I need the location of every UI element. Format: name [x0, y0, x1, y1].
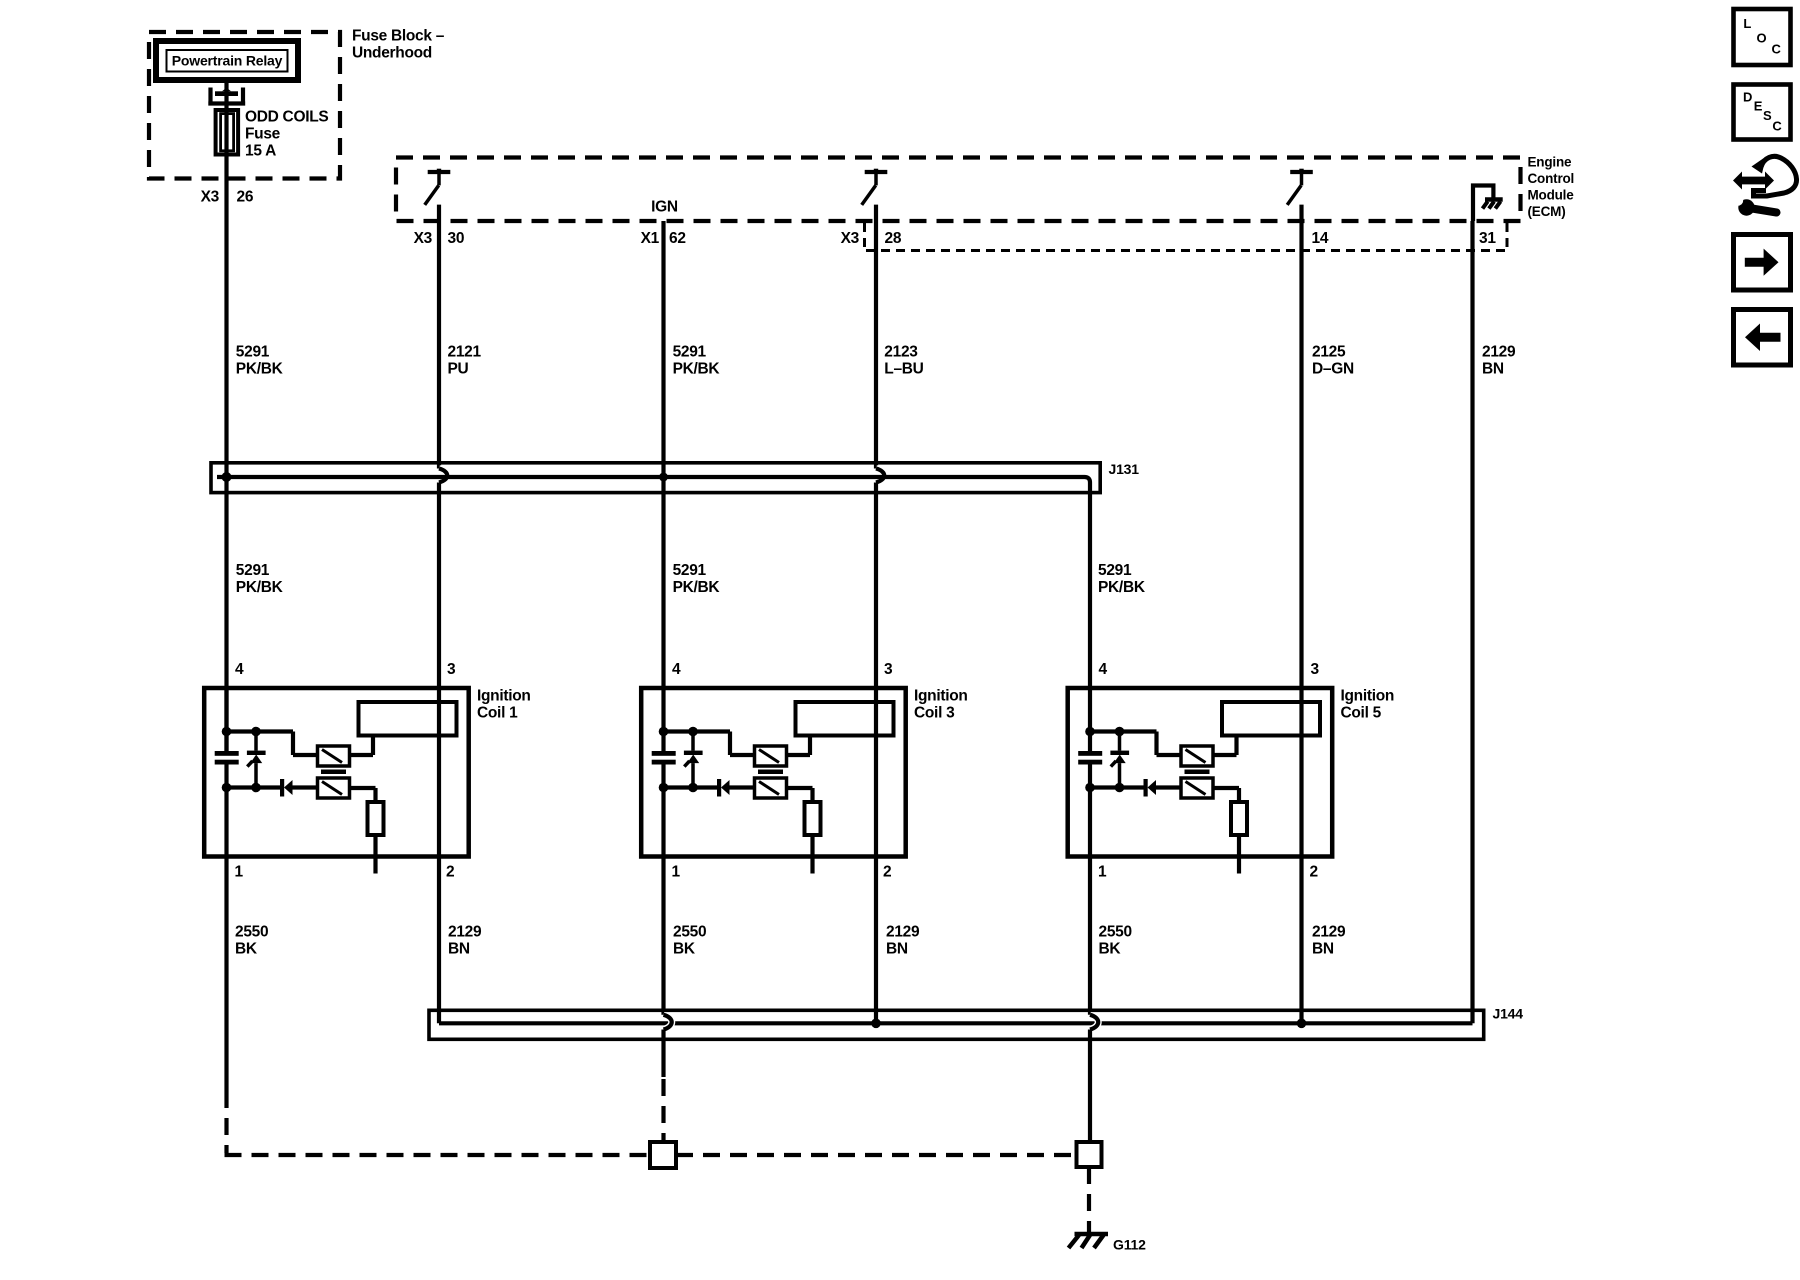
svg-text:E: E	[1754, 99, 1763, 114]
svg-text:Coil 5: Coil 5	[1341, 704, 1382, 721]
splice pack J144 outline	[429, 1010, 1484, 1039]
svg-text:PK/BK: PK/BK	[1098, 579, 1146, 596]
junction dot wire 2129 coil3 at J144	[871, 1019, 881, 1029]
svg-text:Powertrain Relay: Powertrain Relay	[172, 53, 283, 69]
ignition coil 1 module	[204, 661, 469, 881]
ECM internal ground (pin 31)	[1473, 186, 1493, 222]
swap-and-adjust tool icon	[1733, 156, 1797, 215]
wire 2550 BK coil1 pin1 ground run	[224, 857, 228, 1091]
back arrow nav icon	[1734, 310, 1791, 366]
svg-text:S: S	[1763, 108, 1772, 123]
wire 2550 BK coil5 pin1 ground run with hop over J144	[1088, 857, 1092, 1015]
svg-text:Fuse: Fuse	[245, 126, 281, 143]
svg-text:BK: BK	[1099, 940, 1122, 957]
svg-text:C: C	[1772, 118, 1782, 133]
ECM driver Q1 (pin X3-30)	[425, 169, 451, 205]
svg-text:31: 31	[1479, 230, 1496, 247]
junction dot IGN wire at J131	[659, 473, 668, 482]
svg-text:5291: 5291	[673, 343, 707, 360]
svg-text:2121: 2121	[448, 343, 482, 360]
svg-text:J144: J144	[1493, 1006, 1524, 1022]
svg-text:C: C	[1772, 42, 1782, 57]
svg-text:X3: X3	[841, 230, 860, 247]
svg-text:BN: BN	[1482, 360, 1504, 377]
svg-text:Fuse Block –: Fuse Block –	[352, 28, 445, 45]
svg-text:L–BU: L–BU	[884, 360, 923, 377]
svg-text:D: D	[1743, 89, 1752, 104]
svg-text:15 A: 15 A	[245, 143, 276, 160]
wire 2123 L-BU pin X3-28 to coil3 pin3 down to J144	[874, 205, 878, 469]
svg-text:X3: X3	[201, 189, 220, 206]
splice pack J131 outline	[211, 463, 1100, 493]
svg-text:Ignition: Ignition	[914, 687, 968, 704]
splice J131 bus wire to coil5 pin4	[217, 477, 1090, 688]
svg-text:5291: 5291	[236, 562, 270, 579]
splice square S2	[1077, 1142, 1102, 1167]
wire 2129 BN pin 31 to J144 right end	[1470, 221, 1474, 1023]
svg-text:PK/BK: PK/BK	[673, 360, 721, 377]
svg-text:X3: X3	[414, 230, 433, 247]
svg-text:2123: 2123	[884, 343, 918, 360]
dashed ground wire between splices	[676, 1153, 1077, 1157]
svg-text:62: 62	[669, 230, 686, 247]
ECM connector fine dashed sub-box	[865, 223, 1508, 251]
svg-text:2129: 2129	[1482, 343, 1516, 360]
svg-text:14: 14	[1312, 230, 1329, 247]
splice square S1	[650, 1142, 676, 1168]
svg-text:D–GN: D–GN	[1312, 360, 1354, 377]
svg-text:5291: 5291	[236, 343, 270, 360]
svg-text:Ignition: Ignition	[1341, 687, 1395, 704]
svg-text:Underhood: Underhood	[352, 45, 432, 62]
svg-text:2550: 2550	[673, 923, 706, 940]
svg-text:5291: 5291	[673, 562, 707, 579]
svg-text:G112: G112	[1113, 1237, 1146, 1253]
powertrain relay K1 box	[156, 41, 298, 80]
svg-text:ODD COILS: ODD COILS	[245, 109, 328, 126]
svg-text:2550: 2550	[235, 923, 268, 940]
svg-text:L: L	[1743, 16, 1751, 31]
fuse F1 ODD COILS 15 A	[216, 110, 239, 155]
svg-text:30: 30	[448, 230, 465, 247]
svg-text:Engine: Engine	[1528, 155, 1572, 170]
svg-text:Ignition: Ignition	[477, 687, 531, 704]
junction dot wire 5291 at J131	[222, 472, 232, 482]
svg-text:2550: 2550	[1099, 923, 1132, 940]
svg-text:2129: 2129	[448, 923, 482, 940]
svg-text:(ECM): (ECM)	[1528, 204, 1566, 219]
wire 2121 PU pin X3-30 to coil1 pin3 down to J144	[437, 205, 441, 469]
relay contact terminal symbol	[208, 88, 245, 104]
svg-text:26: 26	[237, 189, 254, 206]
svg-text:IGN: IGN	[651, 198, 678, 215]
wire 5291 PK/BK IGN X1-62 to J131 to coil3 pin4	[661, 221, 665, 688]
svg-text:PK/BK: PK/BK	[236, 360, 284, 377]
svg-text:BK: BK	[235, 940, 258, 957]
forward arrow nav icon	[1734, 235, 1791, 291]
ECM dashed outline box	[396, 158, 1521, 222]
svg-text:BN: BN	[448, 940, 470, 957]
svg-text:5291: 5291	[1098, 562, 1132, 579]
wire 2550 BK coil3 pin1 ground run with hop over J144	[661, 857, 665, 1015]
dashed wire splice S2 to ground	[1087, 1167, 1091, 1232]
svg-text:2129: 2129	[1312, 923, 1346, 940]
svg-text:BK: BK	[673, 940, 696, 957]
svg-text:Coil 3: Coil 3	[914, 704, 955, 721]
svg-text:2129: 2129	[886, 923, 920, 940]
svg-text:Control: Control	[1528, 171, 1575, 186]
ground G112	[1075, 1232, 1109, 1237]
svg-text:O: O	[1757, 30, 1767, 45]
ECM driver Q2 (pin X3-28)	[862, 169, 888, 205]
wire 5291 PK/BK relay output through fuse to J131 and coil1 pin4	[224, 80, 228, 751]
svg-text:PK/BK: PK/BK	[673, 579, 721, 596]
ignition coil 5 module	[1068, 661, 1333, 881]
wire 2125 D-GN pin 14 to coil5 pin3 down to J144	[1299, 205, 1303, 1024]
svg-text:J131: J131	[1109, 461, 1140, 477]
svg-text:28: 28	[885, 230, 902, 247]
svg-text:2125: 2125	[1312, 343, 1346, 360]
svg-text:BN: BN	[886, 940, 908, 957]
LOC nav icon	[1734, 9, 1791, 65]
DESC nav icon	[1734, 85, 1791, 140]
junction dot wire 2129 coil5 at J144	[1297, 1019, 1307, 1029]
svg-text:Module: Module	[1528, 188, 1575, 203]
svg-text:PK/BK: PK/BK	[236, 579, 284, 596]
svg-text:Coil 1: Coil 1	[477, 704, 518, 721]
ignition coil 3 module	[641, 661, 906, 881]
svg-text:BN: BN	[1312, 940, 1334, 957]
svg-text:X1: X1	[641, 230, 660, 247]
ECM driver Q3 (pin 14)	[1287, 169, 1313, 205]
fuse block underhood dashed box	[149, 32, 340, 179]
svg-text:PU: PU	[448, 360, 469, 377]
